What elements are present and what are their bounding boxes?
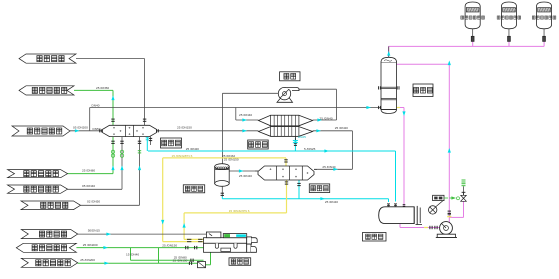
deepcooler top nozzle	[284, 159, 287, 161]
flow arrows	[111, 96, 114, 101]
label 风机	[280, 72, 300, 81]
deepcooler bottom nozzle bolts	[285, 181, 288, 183]
svg-text:15 /DN40: 15 /DN40	[126, 252, 139, 256]
air-cooler 风冷器 row2	[259, 127, 313, 137]
wire circ-water inlet to precooler (green)	[68, 173, 113, 175]
label 制冷机	[229, 258, 251, 266]
supply line flanges	[188, 262, 190, 265]
tank caustic-system 2	[501, 2, 516, 29]
label 风冷器	[248, 140, 269, 149]
wire circ-water supply to chiller (green)	[78, 262, 198, 264]
svg-text:15 /DN32/PN 6: 15 /DN32/PN 6	[229, 209, 250, 213]
node flag 冰水进水	[21, 201, 81, 210]
node flag 循环水回水	[19, 86, 74, 95]
fan 风机 blower	[277, 98, 293, 103]
node flag 循环水回水 2	[16, 243, 76, 252]
wire chilled water supply yellow	[163, 157, 286, 159]
svg-text:15 /DN32/PN 6: 15 /DN32/PN 6	[172, 154, 193, 158]
precooler drain stub	[150, 137, 152, 145]
heat-exchanger precooler 预冷器	[103, 125, 157, 136]
pump P1	[440, 222, 453, 235]
wire fan-exhaust main header	[70, 130, 104, 132]
node tank drop 2	[508, 41, 510, 46]
svg-text:25 /DN80: 25 /DN80	[82, 168, 95, 172]
separator 分离器	[215, 166, 230, 183]
node flag 冰水回水	[19, 54, 76, 63]
node flag 压缩空气	[21, 230, 77, 239]
instrument gauge	[429, 206, 437, 214]
svg-text:DN40: DN40	[92, 104, 100, 108]
svg-text:25 /DN50: 25 /DN50	[96, 86, 109, 90]
svg-text:25 /DN40: 25 /DN40	[322, 165, 335, 169]
wire circ-water return from chiller (green)	[76, 247, 203, 249]
wire branch to air-cooler row1	[235, 108, 237, 121]
node tank drop 3	[543, 41, 545, 46]
wire condensate cyan bottom	[221, 197, 223, 199]
wire circ-water-return to precooler (green)	[74, 89, 113, 91]
svg-text:25 /DN40: 25 /DN40	[186, 147, 199, 151]
label 预冷器	[161, 138, 182, 148]
svg-text:25 /DN40: 25 /DN40	[335, 126, 348, 130]
svg-text:25 /DN40: 25 /DN40	[239, 113, 252, 117]
wire air-cooler row1 outlet	[313, 119, 337, 121]
valve tap-water	[120, 150, 123, 153]
label 分离器	[183, 185, 204, 193]
label 中间罐	[363, 233, 387, 242]
svg-text:02 /DN50: 02 /DN50	[87, 200, 100, 204]
node flag 循环水进水	[8, 170, 68, 178]
svg-text:25 /DN40: 25 /DN40	[325, 200, 338, 204]
globe valve HV	[461, 195, 467, 201]
column 吸收塔	[381, 62, 397, 110]
svg-text:25 /DN80: 25 /DN80	[174, 256, 187, 260]
wire precooler drain cyan main	[146, 137, 148, 151]
wire tap-water flush line	[68, 188, 122, 190]
wire riser bottom to valve	[448, 217, 450, 223]
wire compressed air line	[78, 233, 207, 235]
wire air-cooler row2 outlet	[313, 130, 353, 132]
wire tank outlet to pump	[399, 224, 401, 228]
svg-text:25 /DN40: 25 /DN40	[239, 174, 252, 178]
wire column bottoms magenta	[397, 107, 401, 109]
tank 中间罐	[379, 207, 415, 224]
svg-text:25 /DN32: 25 /DN32	[222, 154, 235, 158]
valve chilled-in	[138, 150, 141, 152]
node flag 自来水冲洗	[8, 185, 68, 193]
pump inlet flanges	[429, 226, 431, 229]
signal dashes green	[444, 197, 448, 199]
wire chilled-water-return line	[76, 58, 145, 60]
wire column reflux magenta riser	[396, 63, 449, 65]
precooler top nozzle bolts	[143, 118, 146, 120]
label 深冷器	[309, 184, 329, 193]
chiller yellow line flanges	[187, 238, 191, 240]
tank caustic-system 3	[537, 2, 552, 29]
svg-text:50/DN15: 50/DN15	[88, 229, 100, 233]
wire fan outlet to column	[299, 88, 337, 90]
wire deepcooler drain cyan	[298, 180, 300, 199]
svg-text:05 /DN40: 05 /DN40	[82, 184, 95, 188]
node flag 循环水进水 2	[21, 258, 77, 267]
label 吸收塔	[413, 84, 433, 97]
svg-text:5 /DN25: 5 /DN25	[304, 147, 316, 151]
positioner box	[433, 195, 444, 200]
signal line to positioner	[436, 201, 443, 207]
precooler cyan drain flange	[146, 137, 149, 139]
svg-text:25 /DN200: 25 /DN200	[83, 243, 98, 247]
node tank drop 1	[472, 41, 474, 46]
svg-text:05 /DN200: 05 /DN200	[73, 126, 88, 130]
air-cooler 风冷器 row1	[259, 115, 313, 126]
svg-text:25 /DN150: 25 /DN150	[177, 125, 192, 129]
air-cooler drain valve cyan	[293, 140, 298, 143]
wire caustic header magenta	[389, 45, 545, 47]
chiller green return flanges	[185, 246, 187, 249]
svg-text:25 /DN150: 25 /DN150	[162, 243, 177, 247]
svg-text:DN25: DN25	[298, 135, 306, 139]
node flag 引风机排气	[12, 126, 70, 136]
strainer	[198, 262, 206, 268]
chiller green lower flanges	[190, 259, 192, 262]
tank caustic-system 1	[465, 2, 480, 29]
wire deepcooler outlet	[314, 168, 352, 170]
wire separator to fan inlet	[222, 93, 224, 164]
svg-text:25 /DN200: 25 /DN200	[80, 258, 95, 262]
wire air-cooler drain cyan	[294, 138, 296, 151]
wire separator outlet to deepcooler	[229, 170, 258, 172]
chiller 制冷机 body	[204, 238, 247, 244]
svg-text:DN50: DN50	[93, 127, 101, 131]
wire precooler outlet to air-cooler row2	[158, 130, 259, 132]
hose connection flanges green	[462, 179, 466, 181]
wire strainer outlet green	[206, 264, 211, 266]
riser bottom flanges	[448, 210, 451, 212]
valve circ-in	[111, 150, 114, 153]
svg-text:25 /DN40: 25 /DN40	[320, 116, 333, 120]
wire chilled water return yellow	[286, 180, 288, 213]
air-cooler drain stub	[294, 136, 296, 140]
heat-exchanger deep cooler 深冷器	[258, 166, 314, 180]
wire chilled-water inlet line	[81, 204, 140, 206]
